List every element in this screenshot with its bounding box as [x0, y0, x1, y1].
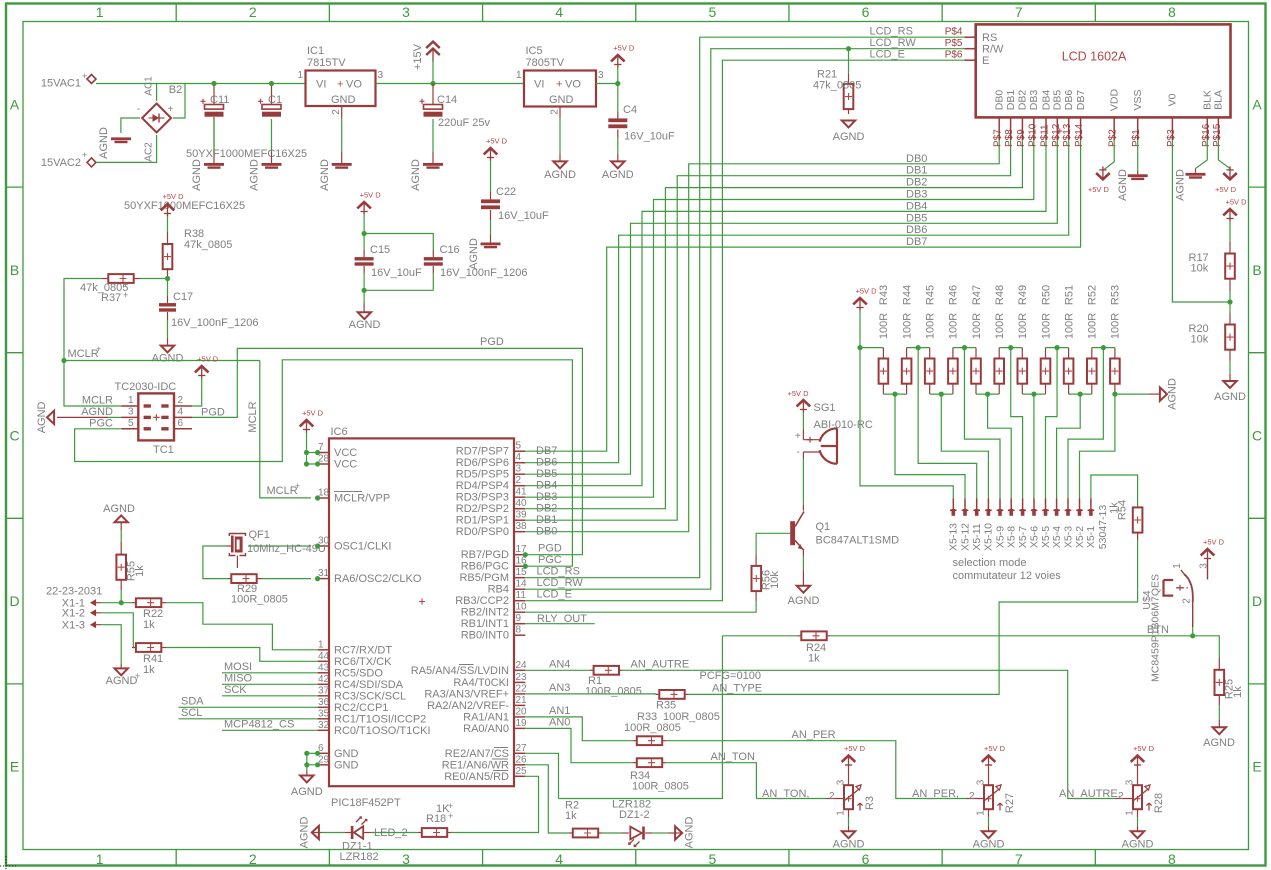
- svg-text:8: 8: [1168, 4, 1176, 20]
- svg-text:AGND: AGND: [833, 839, 865, 851]
- svg-text:16V_10uF: 16V_10uF: [371, 267, 422, 279]
- svg-text:PIC18F452PT: PIC18F452PT: [331, 797, 401, 809]
- svg-text:2: 2: [249, 851, 257, 867]
- wire ladder top bridge: [1092, 347, 1115, 349]
- svg-text:DB4: DB4: [1040, 90, 1052, 111]
- svg-text:100R: 100R: [994, 313, 1006, 339]
- svg-text:AN_PER,: AN_PER,: [912, 788, 959, 800]
- svg-text:16V_100nF_1206: 16V_100nF_1206: [440, 267, 527, 279]
- wire ladder bottom bridge: [883, 393, 906, 395]
- svg-text:MCLR/VPP: MCLR/VPP: [334, 493, 390, 505]
- junction ladder top: [1008, 345, 1013, 350]
- wire R54 to X5-1: [1091, 475, 1138, 507]
- resistor R43 100R: [882, 348, 884, 359]
- ground AGND VSS: [1128, 174, 1148, 177]
- supply +5V BLA (down arrow): [1223, 173, 1237, 179]
- svg-text:B: B: [10, 262, 19, 278]
- svg-text:1k: 1k: [808, 653, 820, 665]
- svg-text:X5-9: X5-9: [994, 526, 1006, 548]
- ground AGND BLK: [1186, 173, 1206, 176]
- svg-text:AGND: AGND: [98, 127, 110, 159]
- ground AGND C4 (triangle): [611, 161, 624, 168]
- svg-text:7815TV: 7815TV: [307, 57, 346, 69]
- supply +5V above R38: [161, 204, 175, 210]
- svg-text:1k: 1k: [1232, 686, 1244, 698]
- wire buzzer to Q1 collector: [802, 452, 804, 458]
- ground AGND C11: [213, 152, 215, 163]
- svg-text:22: 22: [516, 683, 528, 694]
- svg-text:6: 6: [862, 4, 870, 20]
- svg-text:3: 3: [378, 70, 384, 81]
- svg-text:DB2: DB2: [906, 177, 927, 189]
- resistor R1 100R: [525, 669, 590, 671]
- svg-text:R3: R3: [864, 796, 876, 810]
- junction +5V out: [615, 81, 620, 86]
- svg-text:P$5: P$5: [945, 38, 963, 49]
- svg-text:RD7/PSP7: RD7/PSP7: [456, 446, 509, 458]
- svg-text:3: 3: [402, 851, 410, 867]
- capacitor C15: [363, 234, 365, 251]
- svg-text:16V_10uF: 16V_10uF: [498, 210, 549, 222]
- svg-text:P$7: P$7: [993, 129, 1004, 147]
- capacitor C1: [271, 84, 273, 105]
- svg-text:1k: 1k: [565, 810, 577, 822]
- svg-text:Q1: Q1: [816, 521, 831, 533]
- ground AGND IC1: [332, 163, 352, 166]
- svg-text:OSC1/CLKI: OSC1/CLKI: [334, 541, 391, 553]
- svg-text:X5-8: X5-8: [1006, 526, 1018, 548]
- ground AGND R21 (triangle): [842, 121, 855, 128]
- svg-text:50YXF1000MEFC16X25: 50YXF1000MEFC16X25: [124, 200, 245, 212]
- svg-text:P$1: P$1: [1131, 129, 1142, 147]
- wire IC5 gnd pin: [559, 107, 561, 119]
- svg-text:R45: R45: [925, 285, 937, 305]
- wire PGC from TC1 pin5: [75, 360, 573, 566]
- svg-text:AC2: AC2: [143, 142, 154, 162]
- svg-text:P$10: P$10: [1027, 123, 1038, 147]
- capacitor C17: [167, 279, 169, 297]
- microcontroller IC6 PIC18F452PT: [329, 438, 514, 786]
- svg-text:DB1: DB1: [536, 514, 557, 526]
- resistor R48 100R: [998, 348, 1000, 359]
- wire LCD_RW: [525, 49, 964, 590]
- svg-text:+5V D: +5V D: [360, 191, 382, 200]
- svg-text:R51: R51: [1063, 285, 1075, 305]
- resistor R38: [167, 232, 169, 245]
- svg-text:DB5: DB5: [906, 212, 927, 224]
- svg-text:+: +: [135, 671, 140, 681]
- junction R53 bottom: [1112, 392, 1117, 397]
- svg-text:DB7: DB7: [536, 445, 557, 457]
- svg-text:+: +: [448, 811, 453, 821]
- svg-text:C22: C22: [496, 186, 516, 198]
- supply +5V above C15: [357, 202, 371, 208]
- pin X5-11: [976, 499, 978, 510]
- resistor R54 1k: [1133, 507, 1143, 532]
- svg-text:LCD_RW: LCD_RW: [537, 577, 584, 589]
- ground AGND IC5 (triangle): [553, 161, 566, 168]
- svg-text:P$8: P$8: [1004, 129, 1015, 147]
- svg-text:MCLR: MCLR: [68, 348, 99, 360]
- svg-text:DB4: DB4: [906, 200, 927, 212]
- svg-text:RD3/PSP3: RD3/PSP3: [456, 492, 509, 504]
- wire BTN to R25: [1193, 636, 1220, 658]
- svg-text:P$15: P$15: [1212, 123, 1223, 147]
- supply +5V to IC6 VCC: [300, 420, 314, 426]
- svg-text:P$3: P$3: [1166, 129, 1177, 147]
- svg-text:B: B: [1252, 262, 1261, 278]
- svg-text:LCD_RS: LCD_RS: [537, 566, 580, 578]
- svg-text:AGND: AGND: [152, 353, 184, 365]
- svg-text:26: 26: [516, 754, 528, 765]
- svg-text:DB5: DB5: [536, 468, 557, 480]
- svg-text:VO: VO: [565, 79, 581, 91]
- svg-text:RD6/PSP6: RD6/PSP6: [456, 457, 509, 469]
- junction ladder bottom: [1031, 392, 1036, 397]
- trimmer R3 (AN_TON): [842, 756, 856, 762]
- ground AGND at bridge: [111, 137, 131, 140]
- svg-text:AN_TON: AN_TON: [711, 751, 755, 763]
- zener DZ1-2 LZR182: [602, 832, 622, 834]
- junction ladder bottom: [985, 392, 990, 397]
- ground AGND R20 (triangle): [1223, 381, 1236, 388]
- svg-text:+: +: [448, 801, 453, 811]
- svg-text:VSS: VSS: [1132, 89, 1144, 110]
- resistor R56 10k: [755, 555, 757, 567]
- wire ladder to X5 pin: [860, 348, 953, 499]
- svg-text:+: +: [123, 280, 128, 290]
- svg-text:X5-11: X5-11: [971, 523, 983, 550]
- wire +5V to R43 top: [860, 347, 883, 349]
- svg-text:X5-2: X5-2: [1074, 526, 1086, 548]
- svg-text:MCLR: MCLR: [267, 485, 298, 497]
- svg-text:AGND: AGND: [788, 595, 820, 607]
- svg-text:47k_0805: 47k_0805: [813, 80, 861, 92]
- svg-text:10Mhz_HC-49U: 10Mhz_HC-49U: [247, 543, 326, 555]
- wire ladder bottom bridge: [1022, 393, 1045, 395]
- svg-text:2: 2: [516, 475, 522, 486]
- junction GND pins: [304, 751, 309, 756]
- wire bridge left to ground: [121, 118, 140, 133]
- svg-text:RD5/PSP5: RD5/PSP5: [456, 469, 509, 481]
- svg-text:C1: C1: [268, 94, 282, 106]
- svg-text:RD4/PSP4: RD4/PSP4: [456, 480, 509, 492]
- svg-text:R28: R28: [1153, 793, 1165, 813]
- junction ladder top: [916, 345, 921, 350]
- svg-text:7805TV: 7805TV: [526, 57, 565, 69]
- svg-text:3: 3: [1125, 779, 1136, 785]
- wire C15/C16 top bridge: [364, 234, 433, 251]
- junction RB7: [523, 552, 528, 557]
- junction R38/R37/C17: [165, 276, 170, 281]
- svg-text:R27: R27: [1004, 793, 1016, 813]
- svg-text:AGND: AGND: [36, 401, 48, 433]
- svg-text:P$14: P$14: [1074, 123, 1085, 147]
- wire MCLR riser to IC6: [260, 361, 311, 498]
- svg-text:37: 37: [318, 685, 330, 696]
- junction C1: [269, 81, 274, 86]
- svg-text:DB6: DB6: [906, 224, 927, 236]
- svg-text:DB2: DB2: [1017, 90, 1029, 111]
- resistor R18 1K: [371, 832, 418, 834]
- svg-text:5: 5: [128, 418, 134, 429]
- svg-text:RS: RS: [982, 32, 997, 44]
- svg-text:X1-2: X1-2: [62, 608, 85, 620]
- svg-text:+5V D: +5V D: [613, 44, 635, 53]
- svg-text:100R: 100R: [925, 313, 937, 339]
- svg-text:ABI-010-RC: ABI-010-RC: [814, 419, 873, 431]
- wire ladder top bridge: [999, 347, 1022, 349]
- svg-text:4: 4: [555, 851, 563, 867]
- svg-text:100R: 100R: [1110, 313, 1122, 339]
- svg-text:35: 35: [318, 708, 330, 719]
- svg-text:9: 9: [516, 613, 522, 624]
- svg-text:X5-12: X5-12: [959, 523, 971, 551]
- supply +5V above R17: [1223, 209, 1237, 215]
- svg-text:A: A: [1252, 96, 1262, 112]
- svg-text:RA4/T0CKI: RA4/T0CKI: [453, 677, 509, 689]
- capacitor C4: [617, 84, 619, 113]
- svg-text:1: 1: [1125, 810, 1136, 816]
- wire AC1 to regulator input rail: [96, 83, 306, 85]
- ground AGND ladder (right triangle): [1160, 387, 1167, 400]
- svg-text:6: 6: [862, 851, 870, 867]
- wire VDD to +5V: [1103, 140, 1114, 170]
- wire ladder bottom bridge: [930, 393, 953, 395]
- svg-text:100R_0805: 100R_0805: [663, 711, 720, 723]
- svg-text:PCFG=0100: PCFG=0100: [700, 670, 761, 682]
- svg-text:RB3/CCP2: RB3/CCP2: [455, 595, 509, 607]
- wire MCLR down to TC1 pin1: [64, 361, 121, 407]
- svg-text:15: 15: [516, 567, 528, 578]
- svg-text:AGND: AGND: [103, 503, 135, 515]
- svg-text:16V_10uF: 16V_10uF: [624, 131, 675, 143]
- svg-text:100R: 100R: [1017, 313, 1029, 339]
- svg-text:15VAC1: 15VAC1: [41, 78, 81, 90]
- junction MCLR pin18: [315, 495, 320, 500]
- svg-text:AGND: AGND: [602, 169, 634, 181]
- svg-text:3: 3: [128, 406, 134, 417]
- svg-text:RA3/AN3/VREF+: RA3/AN3/VREF+: [424, 688, 509, 700]
- wire AC2 to bridge bottom: [96, 135, 157, 162]
- svg-text:P$6: P$6: [945, 50, 963, 61]
- svg-text:2: 2: [829, 791, 835, 802]
- svg-text:DZ1-2: DZ1-2: [619, 809, 650, 821]
- svg-text:MCLR: MCLR: [82, 395, 113, 407]
- svg-text:VDD: VDD: [1109, 88, 1121, 111]
- voltage regulator IC5 7805TV: [524, 71, 596, 107]
- svg-text:AGND: AGND: [349, 319, 381, 331]
- svg-text:RC1/T1OSI/ICCP2: RC1/T1OSI/ICCP2: [334, 713, 426, 725]
- crystal QF1 10MHz: [248, 545, 311, 547]
- pin X5-4: [1056, 499, 1058, 510]
- svg-text:RC2/CCP1: RC2/CCP1: [334, 702, 388, 714]
- svg-text:2: 2: [331, 109, 342, 115]
- capacitor C22: [484, 148, 498, 154]
- resistor R52 100R: [1091, 348, 1093, 359]
- wire R54 to AN_TYPE: [983, 540, 1138, 694]
- svg-text:DB0: DB0: [994, 90, 1006, 111]
- svg-text:RD0/PSP0: RD0/PSP0: [456, 526, 509, 538]
- svg-text:C: C: [9, 428, 19, 444]
- svg-text:BC847ALT1SMD: BC847ALT1SMD: [816, 535, 900, 547]
- svg-text:X5-1: X5-1: [1085, 526, 1097, 548]
- svg-text:1k: 1k: [143, 619, 155, 631]
- svg-text:R46: R46: [948, 285, 960, 305]
- pin X5-3: [1067, 499, 1069, 510]
- svg-text:1: 1: [1172, 563, 1183, 569]
- svg-text:VCC: VCC: [334, 459, 357, 471]
- svg-text:1: 1: [976, 810, 987, 816]
- resistor R51 100R: [1068, 348, 1070, 359]
- junction ladder bottom: [939, 392, 944, 397]
- svg-text:AGND: AGND: [298, 817, 310, 849]
- wire bridge right output: [173, 84, 185, 119]
- resistor R44 100R: [906, 348, 908, 359]
- svg-text:RA1/AN1: RA1/AN1: [463, 711, 509, 723]
- svg-text:C15: C15: [370, 244, 390, 256]
- svg-text:+5V D: +5V D: [302, 409, 324, 418]
- svg-text:PGC: PGC: [89, 417, 113, 429]
- wire +15V rail to IC5: [433, 83, 524, 85]
- svg-text:R/W: R/W: [982, 44, 1004, 56]
- svg-text:DB3: DB3: [536, 491, 557, 503]
- svg-text:RE2/AN7/CS: RE2/AN7/CS: [445, 748, 509, 760]
- svg-text:R52: R52: [1087, 285, 1099, 305]
- wire RE2 to BTN via R24: [525, 753, 558, 798]
- svg-text:DB1: DB1: [1005, 90, 1017, 111]
- svg-text:2: 2: [1181, 598, 1192, 604]
- junction C11: [211, 81, 216, 86]
- pin X5-13: [952, 499, 954, 510]
- svg-text:5: 5: [708, 4, 716, 20]
- wire AN_TON: [666, 763, 756, 799]
- wire R18 to IC6 RE0: [451, 776, 539, 832]
- svg-text:1k: 1k: [134, 565, 146, 577]
- svg-text:P$12: P$12: [1051, 123, 1062, 147]
- svg-text:DB5: DB5: [1052, 90, 1064, 111]
- svg-text:27: 27: [516, 743, 528, 754]
- svg-text:C: C: [1252, 428, 1262, 444]
- junction VCC pins: [304, 450, 309, 455]
- supply +5V ladder: [853, 298, 867, 304]
- wire AN_PER: [666, 741, 967, 799]
- svg-text:C17: C17: [173, 291, 193, 303]
- svg-text:TC2030-IDC: TC2030-IDC: [115, 381, 177, 393]
- wire ladder to X5 pin: [1011, 348, 1023, 499]
- svg-text:MCP4812_CS: MCP4812_CS: [224, 719, 294, 731]
- junction +15V: [430, 81, 435, 86]
- svg-text:RC6/TX/CK: RC6/TX/CK: [334, 656, 392, 668]
- svg-text:+: +: [337, 79, 343, 91]
- svg-text:+5V D: +5V D: [1088, 185, 1110, 194]
- svg-text:3: 3: [836, 779, 847, 785]
- junction C15 top: [362, 231, 367, 236]
- connector TC1 TC2030-IDC: [138, 393, 174, 440]
- svg-text:DB0: DB0: [906, 153, 927, 165]
- wire R53 bottom to AGND: [1115, 393, 1149, 395]
- svg-text:R35: R35: [656, 700, 676, 712]
- svg-text:X1-3: X1-3: [62, 620, 85, 632]
- svg-text:LCD 1602A: LCD 1602A: [1062, 50, 1127, 64]
- svg-text:40: 40: [516, 498, 528, 509]
- wire PGD from TC1 pin4: [192, 348, 582, 554]
- svg-text:R44: R44: [901, 285, 913, 305]
- svg-text:4: 4: [178, 406, 184, 417]
- resistor R33 100R: [633, 740, 637, 742]
- svg-text:GND: GND: [334, 748, 359, 760]
- pin X5-6: [1033, 499, 1035, 510]
- ground AGND IC6 (triangle): [300, 776, 313, 783]
- wire TC1 pin3 to AGND: [108, 416, 121, 418]
- svg-text:MISO: MISO: [224, 673, 253, 685]
- resistor R20: [1229, 302, 1231, 313]
- svg-text:P$9: P$9: [1016, 129, 1027, 147]
- svg-text:6: 6: [178, 418, 184, 429]
- supply +15V symbol: [426, 42, 440, 55]
- svg-text:50YXF1000MEFC16X25: 50YXF1000MEFC16X25: [186, 148, 307, 160]
- svg-text:3: 3: [402, 4, 410, 20]
- svg-text:R54: R54: [1116, 500, 1128, 520]
- svg-text:AN_TYPE: AN_TYPE: [712, 683, 762, 695]
- ground AGND C14: [423, 163, 443, 166]
- supply +5V switch: [1201, 549, 1215, 555]
- resistor R22: [132, 602, 136, 604]
- svg-text:VO: VO: [346, 79, 362, 91]
- svg-text:RA6/OSC2/CLKO: RA6/OSC2/CLKO: [334, 573, 422, 585]
- wire RE1 to R2: [525, 765, 569, 833]
- wire R41 to IC6 RC6: [166, 648, 318, 662]
- capacitor C16: [432, 250, 434, 257]
- svg-text:RC3/SCK/SCL: RC3/SCK/SCL: [334, 690, 406, 702]
- svg-text:RE0/AN5/RD: RE0/AN5/RD: [444, 771, 509, 783]
- svg-text:AN3: AN3: [549, 682, 570, 694]
- svg-text:RB0/INT0: RB0/INT0: [461, 630, 509, 642]
- svg-text:2: 2: [249, 4, 257, 20]
- svg-text:P$11: P$11: [1040, 124, 1051, 147]
- wire DB3: [525, 140, 1034, 497]
- wire ladder to X5 pin: [918, 348, 977, 499]
- svg-text:AGND: AGND: [1174, 169, 1186, 201]
- svg-text:E: E: [982, 55, 989, 67]
- svg-text:BTN: BTN: [1147, 624, 1169, 636]
- wire DB7: [525, 140, 1080, 451]
- wire ladder top bridge: [907, 347, 930, 349]
- svg-text:PGD: PGD: [480, 336, 504, 348]
- pin X5-7: [1022, 499, 1024, 510]
- svg-text:AGND: AGND: [291, 786, 323, 798]
- svg-text:AN1: AN1: [549, 705, 570, 717]
- wire ladder to X5 pin: [1080, 394, 1115, 499]
- svg-text:16V_100nF_1206: 16V_100nF_1206: [171, 317, 258, 329]
- svg-text:8: 8: [516, 625, 522, 636]
- junction R21/LCD_RW: [846, 46, 851, 51]
- svg-text:AGND: AGND: [973, 839, 1005, 851]
- pin X5-2: [1079, 499, 1081, 510]
- resistor R45 100R: [929, 348, 931, 359]
- svg-text:C4: C4: [623, 104, 637, 116]
- wire ladder bottom bridge: [976, 393, 999, 395]
- svg-text:1: 1: [96, 851, 104, 867]
- resistor R49 100R: [1021, 348, 1023, 359]
- svg-text:R37: R37: [101, 292, 121, 304]
- svg-text:24: 24: [516, 660, 528, 671]
- wire AGND to R55: [120, 522, 122, 530]
- svg-text:22-23-2031: 22-23-2031: [46, 586, 102, 598]
- svg-text:25: 25: [516, 766, 528, 777]
- svg-text:8: 8: [1168, 851, 1176, 867]
- svg-text:AGND: AGND: [106, 675, 138, 687]
